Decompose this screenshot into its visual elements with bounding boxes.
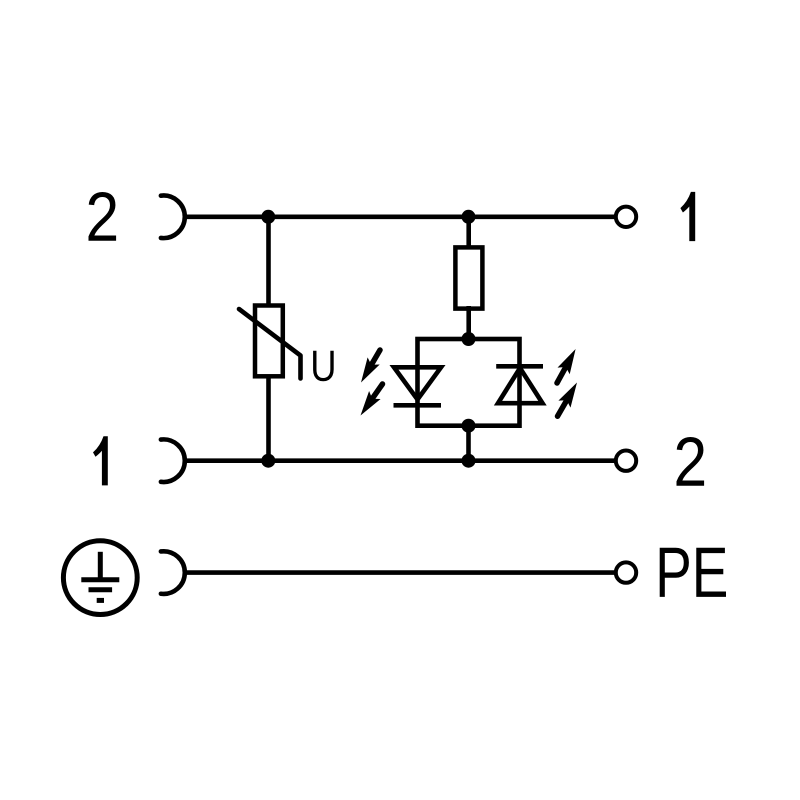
- LED bridge frame: [418, 339, 520, 426]
- wire varistor branch upper: [266, 217, 271, 307]
- LED D2 triangle (pointing up): [498, 368, 543, 403]
- socket contact arc (top left): [161, 196, 185, 239]
- junction node LED bridge bottom: [462, 419, 476, 433]
- LED D1 cathode bar: [394, 403, 442, 408]
- wire row B: [185, 458, 619, 463]
- LED D2 emission arrow 1: [557, 365, 567, 383]
- terminal circle PE (right): [616, 562, 636, 582]
- label terminal 1 (top right): [680, 192, 695, 241]
- label terminal 2 (bottom right): [676, 437, 704, 486]
- earth bar middle: [89, 587, 113, 592]
- LED D1 triangle (pointing down): [394, 367, 441, 399]
- junction node row B / bridge: [462, 454, 476, 468]
- wire resistor branch lower: [466, 306, 471, 339]
- terminal circle 2 (bottom right): [616, 451, 636, 471]
- label contact 2 (top left): [88, 192, 116, 241]
- protective earth symbol circle: [63, 541, 137, 615]
- label PE: [660, 548, 726, 597]
- terminal circle 1 (top right): [616, 207, 636, 227]
- LED D2 emission arrow 2: [558, 398, 569, 416]
- wire resistor branch upper: [466, 217, 471, 250]
- varistor diagonal stroke: [239, 309, 301, 379]
- wire bridge to row B: [466, 426, 471, 461]
- varistor value label U: [313, 351, 334, 382]
- wire varistor branch lower: [266, 375, 271, 461]
- junction node row A / varistor: [261, 210, 275, 224]
- earth bar short: [97, 598, 104, 603]
- junction node LED bridge top: [462, 332, 476, 346]
- wire PE: [185, 570, 619, 575]
- socket contact arc (bottom left): [161, 439, 185, 482]
- LED D1 emission arrow 2: [371, 384, 383, 401]
- label contact 1 (bottom left): [93, 436, 108, 485]
- junction node row A / resistor: [462, 210, 476, 224]
- LED D1 emission arrow 1: [370, 350, 380, 367]
- socket contact arc (PE): [161, 551, 185, 594]
- earth stem: [98, 552, 103, 580]
- varistor RU body: [255, 306, 283, 377]
- junction node row B / varistor: [261, 454, 275, 468]
- LED D2 cathode bar: [496, 364, 543, 369]
- resistor R body: [455, 247, 482, 308]
- wire row A: [185, 215, 619, 220]
- earth bar long: [81, 577, 119, 582]
